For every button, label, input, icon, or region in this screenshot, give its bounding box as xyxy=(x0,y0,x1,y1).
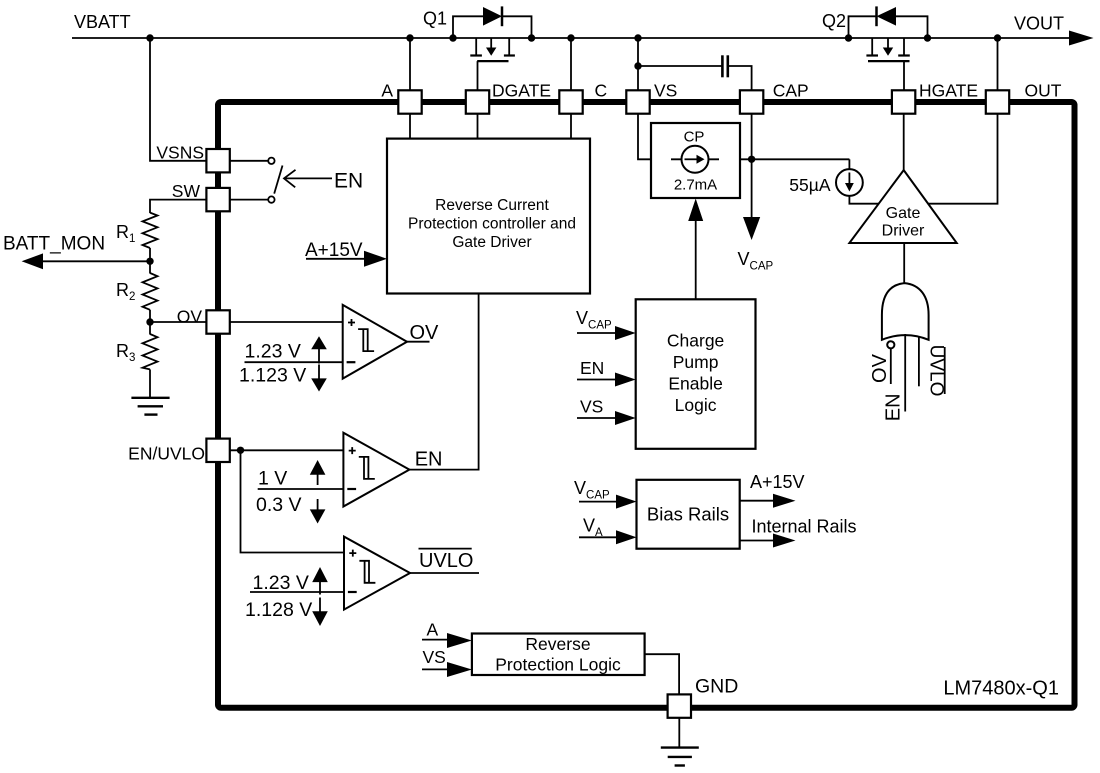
wire OV comparator output xyxy=(407,341,430,343)
svg-text:Protection Logic: Protection Logic xyxy=(495,655,621,675)
wire OV pin to OV comparator + input xyxy=(230,321,343,323)
svg-text:GND: GND xyxy=(695,676,738,698)
OV threshold up arrow xyxy=(318,347,320,364)
A+15V arrowhead xyxy=(364,251,387,267)
wire VCAP into CPEL xyxy=(577,332,615,334)
wire UVLO comparator output xyxy=(410,572,479,574)
wire CP output to 55uA source xyxy=(740,158,849,160)
diode of Q2 cathode bar xyxy=(875,6,878,26)
pin OUT xyxy=(986,90,1009,113)
MOSFET Q2 left foot xyxy=(866,54,878,56)
node capacitor branch on VS line xyxy=(634,62,641,69)
MOSFET Q2 right foot xyxy=(898,54,910,56)
wire 55uA to gate driver left xyxy=(849,196,880,204)
switch blade xyxy=(274,166,282,194)
svg-text:EN: EN xyxy=(415,449,443,471)
wire EN input to OR gate xyxy=(904,334,906,412)
UVLO overline xyxy=(944,347,946,394)
svg-text:Protection controller and: Protection controller and xyxy=(408,216,576,233)
EN actuation arrow (open arrowhead) xyxy=(284,170,296,188)
op-amp UVLO comparator xyxy=(344,537,410,610)
svg-text:SW: SW xyxy=(172,181,201,201)
OR gate OV input bubble xyxy=(887,341,894,348)
diode of Q2 body (points left) xyxy=(877,7,897,26)
pin A xyxy=(398,90,421,113)
wire SW pin to resistor divider xyxy=(150,200,206,213)
wire VS line to capacitor xyxy=(638,65,722,67)
block Charge Pump Enable Logic xyxy=(636,299,756,449)
OV comparator hysteresis symbol xyxy=(358,329,368,351)
current source 55uA arrow xyxy=(848,173,850,185)
svg-text:VS: VS xyxy=(654,81,677,101)
IC boundary LM7480x-Q1 xyxy=(218,102,1075,708)
MOSFET Q1 right foot xyxy=(504,54,515,56)
wire RPL output to GND pin xyxy=(645,654,680,694)
svg-text:Internal Rails: Internal Rails xyxy=(752,517,857,537)
wire CP enable (up arrow into CP block) xyxy=(695,218,697,299)
svg-text:Q2: Q2 xyxy=(822,11,846,31)
wire Q1 diode loop left xyxy=(453,16,483,38)
svg-text:A: A xyxy=(381,81,393,101)
svg-text:Enable: Enable xyxy=(668,374,723,394)
EN threshold down arrow xyxy=(317,499,319,510)
svg-text:C: C xyxy=(595,81,608,101)
wire CAP pin down to junction xyxy=(751,113,753,159)
svg-text:55µA: 55µA xyxy=(789,175,831,195)
node CP output / VCAP junction xyxy=(748,156,755,163)
EN threshold up arrow xyxy=(317,473,319,485)
node OV junction xyxy=(146,318,153,325)
current source 55uA circle xyxy=(836,169,863,196)
wire VA into Bias Rails xyxy=(579,536,616,538)
wire VCAP into Bias Rails xyxy=(579,501,616,503)
UVLO comparator + sign xyxy=(349,550,356,557)
current source CP circle xyxy=(682,146,709,173)
node Q2 anode junction xyxy=(924,34,931,41)
wire Q2 diode loop left xyxy=(849,16,877,38)
svg-text:A+15V: A+15V xyxy=(750,472,805,492)
pin C xyxy=(559,90,582,113)
node EN/UVLO junction xyxy=(237,447,244,454)
MOSFET Q2 body arrow xyxy=(887,38,889,48)
svg-text:HGATE: HGATE xyxy=(919,81,978,101)
MOSFET Q1 left foot xyxy=(470,54,482,56)
svg-text:OV: OV xyxy=(869,353,891,383)
node OUT branch xyxy=(994,34,1001,41)
svg-text:EN/UVLO: EN/UVLO xyxy=(128,444,205,464)
svg-text:DGATE: DGATE xyxy=(492,81,551,101)
resistor R2 xyxy=(143,273,158,310)
svg-text:VOUT: VOUT xyxy=(1014,14,1064,34)
resistor R3 xyxy=(143,334,158,369)
wire Q1 diode loop right xyxy=(502,16,532,38)
wire R3 to ground xyxy=(149,369,151,397)
wire gate driver to OR gate xyxy=(903,243,905,284)
svg-text:1.23 V: 1.23 V xyxy=(245,341,301,363)
svg-text:1.23 V: 1.23 V xyxy=(253,572,309,594)
svg-text:A+15V: A+15V xyxy=(305,240,363,261)
wire EN into CPEL xyxy=(577,379,615,381)
node A branch xyxy=(406,34,413,41)
op-amp OV comparator xyxy=(343,305,407,379)
svg-text:Bias Rails: Bias Rails xyxy=(647,504,729,525)
pin GND xyxy=(668,694,691,717)
wire 55uA source drop xyxy=(848,159,850,169)
capacitor plate right xyxy=(726,55,729,77)
wire Q2 diode loop right xyxy=(896,16,928,38)
wire OV input to OR gate xyxy=(890,349,892,385)
svg-text:CP: CP xyxy=(684,129,705,146)
wire pin DGATE to RCP block xyxy=(477,113,479,139)
UVLO threshold down arrow xyxy=(319,598,321,613)
VOUT arrowhead xyxy=(1069,31,1094,46)
block CP charge pump xyxy=(651,123,740,198)
wire VSNS pin to switch contact xyxy=(230,160,268,162)
switch contact lower (open circle) xyxy=(268,196,274,202)
MOSFET Q2 left stub xyxy=(871,38,873,56)
svg-text:VBATT: VBATT xyxy=(74,12,131,32)
MOSFET Q1 gate bar xyxy=(477,60,508,62)
wire A into RPL xyxy=(422,639,447,641)
wire rail to pin A xyxy=(409,38,411,91)
op-amp EN comparator xyxy=(343,433,409,507)
MOSFET Q1 body arrow xyxy=(490,38,492,48)
svg-text:OV: OV xyxy=(177,307,203,327)
wire UVLO input to OR gate xyxy=(918,338,920,387)
wire A+15V into RCP block xyxy=(306,258,364,260)
diode of Q1 body xyxy=(483,7,502,26)
MOSFET Q1 left stub xyxy=(475,38,477,56)
wire rail to pin C xyxy=(570,38,572,91)
wire VBATT down to VSNS xyxy=(150,38,206,161)
wire capacitor to CAP pin xyxy=(728,66,752,91)
node Q1 anode junction xyxy=(449,34,456,41)
wire A+15V output xyxy=(740,500,773,502)
svg-text:VS: VS xyxy=(423,647,446,667)
block Reverse Current Protection controller and Gate Driver xyxy=(387,139,590,294)
amplifier Gate Driver xyxy=(849,170,956,243)
ground symbol (resistor divider) xyxy=(131,397,169,399)
MOSFET Q2 right stub xyxy=(903,38,905,56)
wire Q1 gate to DGATE pin xyxy=(477,61,479,91)
wire OV node to OV pin xyxy=(150,321,206,323)
svg-text:Reverse: Reverse xyxy=(525,634,590,654)
wire VS into RPL xyxy=(422,668,447,670)
wire EN/UVLO pin to EN comparator + input xyxy=(230,449,344,451)
EN comparator hysteresis symbol xyxy=(359,457,369,479)
wire pin C to RCP block xyxy=(570,113,572,139)
UVLO comparator - sign xyxy=(348,591,357,593)
svg-text:1 V: 1 V xyxy=(258,467,287,489)
pin VS xyxy=(626,90,649,113)
wire top rail VBATT to VOUT xyxy=(72,37,1070,39)
resistor R1 xyxy=(143,213,158,248)
svg-text:CAP: CAP xyxy=(773,81,809,101)
UVLO threshold up arrow xyxy=(319,581,321,595)
block Bias Rails xyxy=(637,480,740,549)
svg-text:Q1: Q1 xyxy=(423,9,447,29)
wire HGATE pin down to gate driver apex xyxy=(903,113,905,171)
svg-text:OV: OV xyxy=(410,322,440,344)
pin SW xyxy=(206,188,229,211)
svg-text:Gate: Gate xyxy=(886,205,921,222)
VCAP down arrow xyxy=(751,159,753,219)
svg-text:Pump: Pump xyxy=(673,352,719,372)
ground symbol (GND pin) xyxy=(661,746,699,748)
svg-text:EN: EN xyxy=(883,393,905,421)
svg-text:Gate Driver: Gate Driver xyxy=(452,234,531,251)
pin HGATE xyxy=(892,90,915,113)
EN comparator + sign xyxy=(349,447,356,454)
wire pin A to RCP block xyxy=(409,113,411,139)
wire UVLO threshold (- input) xyxy=(250,591,344,593)
pin CAP xyxy=(740,90,763,113)
wire EN threshold (- input) xyxy=(258,488,344,490)
wire EN comparator output to RCP block xyxy=(409,292,478,470)
wire rail to pin VS xyxy=(637,38,639,91)
wire R2 to R3 xyxy=(149,310,151,335)
svg-text:A: A xyxy=(427,620,439,640)
svg-text:1.123 V: 1.123 V xyxy=(239,365,306,387)
pin VSNS xyxy=(206,149,229,172)
wire R1 to R2 xyxy=(149,248,151,273)
svg-text:Logic: Logic xyxy=(675,395,717,415)
node BATT_MON junction xyxy=(146,258,153,265)
MOSFET Q2 gate bar xyxy=(868,60,910,62)
node Q1 cathode junction xyxy=(528,34,535,41)
MOSFET Q1 right stub xyxy=(508,38,510,56)
current source CP through-line xyxy=(671,158,719,160)
current source CP arrow xyxy=(685,158,698,160)
svg-text:1.128 V: 1.128 V xyxy=(245,599,312,621)
switch contact upper (open circle) xyxy=(268,158,274,164)
EN comparator - sign xyxy=(347,488,356,490)
svg-text:VS: VS xyxy=(580,397,603,417)
wire Q2 gate to HGATE pin xyxy=(903,61,905,91)
wire VS pin down to CP block xyxy=(638,113,651,159)
svg-text:UVLO: UVLO xyxy=(926,345,947,397)
capacitor between VS and CAP plate left xyxy=(721,55,724,77)
wire BATT_MON xyxy=(42,260,150,262)
OV comparator - sign xyxy=(347,361,356,363)
block Reverse Protection Logic xyxy=(472,634,645,676)
pin DGATE xyxy=(466,90,489,113)
OV comparator + sign xyxy=(348,319,355,326)
pin EN/UVLO xyxy=(206,439,229,462)
svg-text:Driver: Driver xyxy=(882,223,925,240)
wire Internal Rails output xyxy=(740,540,773,542)
svg-text:BATT_MON: BATT_MON xyxy=(3,234,105,255)
svg-text:VSNS: VSNS xyxy=(156,143,204,163)
node Q2 source junction xyxy=(845,34,852,41)
svg-text:Reverse Current: Reverse Current xyxy=(435,197,549,214)
UVLO comparator hysteresis symbol xyxy=(359,561,369,583)
pin OV xyxy=(206,310,229,333)
svg-text:OUT: OUT xyxy=(1025,81,1062,101)
wire OV threshold (- input) xyxy=(245,361,343,363)
OR gate (charge pump enable gating) xyxy=(882,283,929,340)
wire SW pin to switch contact xyxy=(230,199,268,201)
node VS branch xyxy=(634,34,641,41)
wire VS into CPEL xyxy=(577,417,615,419)
svg-text:Charge: Charge xyxy=(667,331,724,351)
svg-text:2.7mA: 2.7mA xyxy=(674,177,717,194)
diode of Q1 cathode bar xyxy=(501,6,504,26)
wire rail to pin OUT xyxy=(997,38,999,91)
svg-text:EN: EN xyxy=(334,170,363,193)
wire OUT pin down to gate driver feedback xyxy=(929,113,998,204)
node C branch xyxy=(567,34,574,41)
svg-text:EN: EN xyxy=(580,358,604,378)
wire EN/UVLO node down to UVLO comparator xyxy=(241,450,345,552)
svg-text:0.3 V: 0.3 V xyxy=(256,494,302,516)
wire GND pin to ground symbol xyxy=(678,718,680,747)
BATT_MON arrowhead xyxy=(22,253,43,269)
node VBATT junction xyxy=(146,34,153,41)
svg-text:LM7480x-Q1: LM7480x-Q1 xyxy=(943,677,1059,699)
svg-text:UVLO: UVLO xyxy=(419,550,473,572)
OV threshold down arrow xyxy=(318,365,320,381)
